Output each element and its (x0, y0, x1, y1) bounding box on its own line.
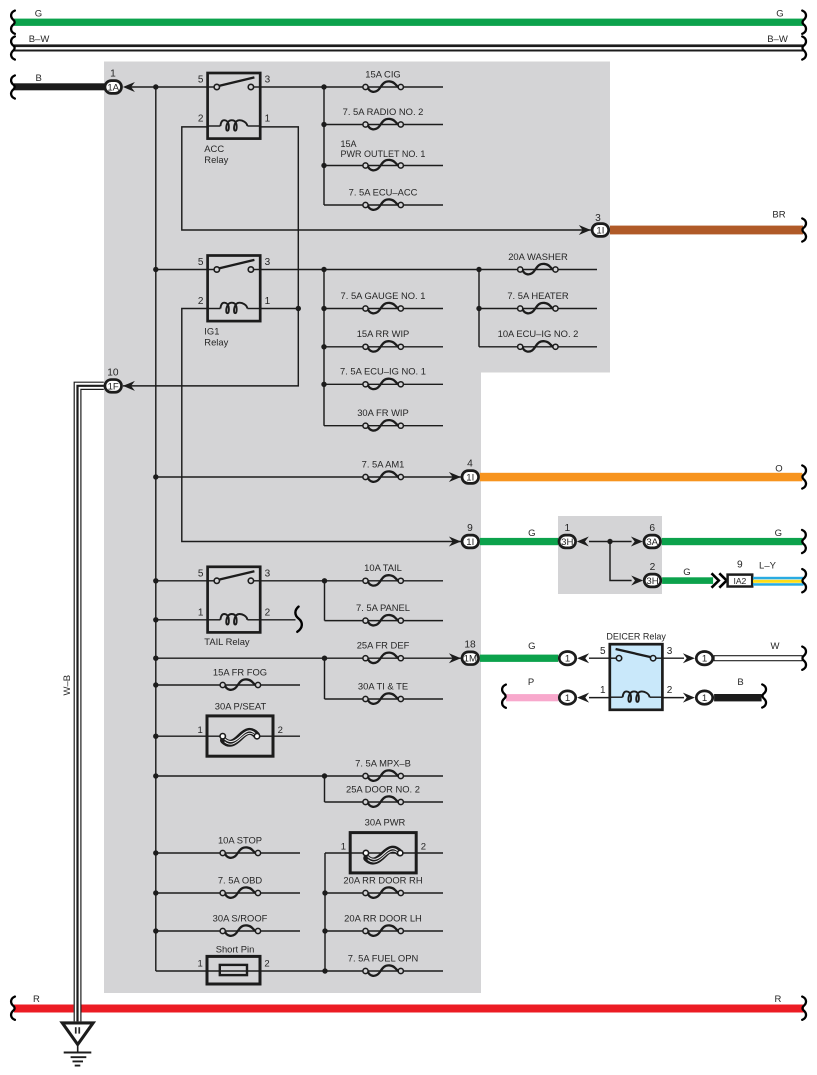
wire P (pink) (506, 694, 558, 701)
svg-text:7. 5A FUEL OPN: 7. 5A FUEL OPN (348, 952, 419, 963)
svg-text:9: 9 (467, 523, 473, 534)
arrow out of 1A (123, 82, 135, 92)
svg-text:1: 1 (702, 693, 707, 704)
svg-text:1: 1 (265, 114, 271, 125)
connector 1M pin 18 (462, 652, 479, 665)
arrow out of 1F (123, 381, 135, 391)
svg-text:7. 5A RADIO NO. 2: 7. 5A RADIO NO. 2 (343, 106, 424, 117)
svg-text:G: G (528, 641, 535, 652)
svg-text:1: 1 (198, 959, 203, 970)
chevrons into IA2 (712, 573, 727, 587)
wire G out of 3A (green) (662, 538, 803, 545)
connector 1 (W out) (696, 652, 712, 665)
wire L-Y (lightblue/yellow) (753, 577, 804, 580)
relay ACC: contact circles (214, 84, 219, 89)
fuse row 15A RR WIP (324, 346, 443, 348)
svg-text:B: B (737, 677, 743, 688)
connector 1 (deicer in) (559, 652, 575, 665)
svg-text:5: 5 (198, 257, 204, 268)
L-Y cut (right) (802, 569, 806, 592)
junction: main bus at 1A row (153, 84, 158, 89)
wire: ACC coil pin 2 loop (182, 127, 591, 230)
svg-text:6: 6 (649, 523, 655, 534)
junction: main bus TAIL row (153, 578, 158, 583)
svg-text:30A P/SEAT: 30A P/SEAT (215, 700, 267, 711)
svg-text:10A STOP: 10A STOP (218, 834, 262, 845)
relay ACC: body box (208, 73, 261, 139)
fuse row 20A RR DOOR RH (325, 892, 443, 894)
svg-text:20A RR DOOR LH: 20A RR DOOR LH (344, 912, 422, 923)
wire: TAIL coil pin 2 stub (260, 619, 295, 621)
svg-text:30A TI & TE: 30A TI & TE (358, 680, 408, 691)
vertical: ACC fuse column (323, 87, 325, 205)
svg-text:1: 1 (110, 68, 116, 79)
wire O (orange) (480, 473, 803, 482)
fuse row 20A RR DOOR LH (325, 930, 443, 932)
connector 1 (P in) (559, 691, 575, 704)
svg-text:BR: BR (772, 209, 785, 220)
svg-text:R: R (33, 994, 40, 1005)
junction: WASHER col top (476, 267, 481, 272)
svg-text:2: 2 (667, 685, 673, 696)
svg-text:3: 3 (667, 646, 673, 657)
W cut (right) (802, 647, 806, 670)
svg-text:2: 2 (198, 114, 204, 125)
svg-text:7. 5A MPX–B: 7. 5A MPX–B (355, 757, 411, 768)
arrow into 1I(4) (449, 472, 461, 482)
svg-text:5: 5 (198, 75, 204, 86)
wire: IG1 pin 3 to WASHER column (260, 269, 597, 271)
fuse row 10A ECU-IG NO.2 (479, 346, 597, 348)
svg-text:7. 5A ECU–ACC: 7. 5A ECU–ACC (349, 186, 418, 197)
svg-text:7. 5A ECU–IG NO. 1: 7. 5A ECU–IG NO. 1 (340, 366, 426, 377)
connector 1 (B out) (696, 691, 712, 704)
svg-text:W: W (771, 641, 780, 652)
svg-text:Short Pin: Short Pin (216, 943, 255, 954)
connector 3H pin 2 (644, 574, 661, 587)
arrow out of P connector (577, 693, 589, 703)
G bus cut (right) (802, 11, 806, 34)
R cut (left) (11, 997, 15, 1020)
fuse row 10A STOP (156, 852, 300, 854)
relay TAIL: switch blade (219, 571, 255, 580)
wire from DEICER pin 2 (662, 697, 684, 699)
relay IG1: switch contact wires (208, 269, 215, 271)
svg-text:1: 1 (341, 842, 346, 853)
junction: main bus at IG1 row (153, 267, 158, 272)
arrow into W connector (683, 653, 695, 663)
svg-text:B–W: B–W (29, 34, 50, 45)
wire BR (brown) (610, 226, 803, 235)
junction: CIG branch (321, 84, 326, 89)
relay DEICER: switch contact wires (610, 657, 617, 659)
fuse row 25A FR DEF (156, 657, 461, 659)
svg-text:1: 1 (565, 654, 570, 665)
vertical: DEF column (324, 658, 326, 699)
svg-text:IA2: IA2 (733, 576, 746, 586)
svg-text:5: 5 (198, 569, 204, 580)
wire W-B (white w/ black stripe) (74, 382, 82, 1021)
ground bars (64, 1053, 92, 1066)
connector 1I pin 3 (592, 224, 609, 237)
wire: ACC relay pin 3 to fuse row (260, 86, 443, 88)
svg-text:L–Y: L–Y (759, 561, 777, 572)
fuse row 30A S/ROOF (156, 930, 300, 932)
R cut (right) (802, 997, 806, 1020)
svg-text:TAIL Relay: TAIL Relay (204, 636, 250, 647)
fuse row 7.5A AM1 (156, 476, 461, 478)
fusible link 30A PWR (325, 852, 443, 854)
fuse row 15A FR FOG (156, 684, 300, 686)
relay ACC: coil (208, 125, 221, 127)
svg-text:3: 3 (265, 257, 271, 268)
connector 1I pin 4 (462, 471, 479, 484)
B cut (left) (11, 75, 15, 98)
svg-text:5: 5 (600, 646, 606, 657)
wire W (white) (714, 656, 802, 661)
svg-text:15A: 15A (341, 139, 357, 149)
svg-text:1I: 1I (466, 537, 474, 548)
fuse row 25A DOOR NO.2 (325, 801, 444, 803)
junction: main bus TAIL coil (153, 617, 158, 622)
svg-text:P: P (528, 677, 534, 688)
wire: ACC coil pin 1 down to 1F row (123, 127, 298, 386)
wire B-W bus (black/white) (14, 44, 804, 47)
relay TAIL: coil (208, 619, 221, 621)
wire G out of 3H(2) (green) (662, 577, 713, 584)
fuse row 7.5A GAUGE NO.1 (324, 308, 443, 310)
svg-text:7. 5A PANEL: 7. 5A PANEL (356, 602, 410, 613)
svg-text:1: 1 (265, 296, 271, 307)
svg-text:20A WASHER: 20A WASHER (508, 251, 568, 262)
arrow out of 3H(1) (577, 537, 589, 547)
BR cut (right) (802, 218, 806, 241)
svg-text:1: 1 (600, 685, 606, 696)
svg-text:DEICER Relay: DEICER Relay (606, 632, 666, 642)
svg-text:R: R (774, 994, 781, 1005)
wire: IG1 coil pin 1 to pin-1 bus (260, 308, 298, 310)
connector IA2 (728, 575, 753, 587)
svg-text:1I: 1I (596, 225, 604, 236)
svg-text:3H: 3H (646, 576, 658, 587)
shaded area around 3H/3A connectors (558, 516, 662, 594)
relay TAIL: switch contact wires (208, 580, 215, 582)
cut squiggle after TAIL pin 2 (295, 607, 301, 632)
svg-text:1A: 1A (107, 82, 119, 93)
wire B (black, deicer out) (714, 694, 762, 701)
junction: TAIL col top (322, 578, 327, 583)
wire G 1M to DEICER (green) (480, 655, 558, 662)
relay IG1: body box (208, 256, 261, 322)
wire: 1A to ACC relay pin 5 (130, 86, 208, 88)
arrow into 3A (631, 537, 643, 547)
relay IG1: switch blade (219, 260, 255, 269)
svg-text:B–W: B–W (767, 34, 788, 45)
G cut (right, 3A) (802, 530, 806, 553)
svg-text:7. 5A OBD: 7. 5A OBD (218, 874, 263, 885)
svg-text:15A CIG: 15A CIG (365, 68, 400, 79)
fuse row 7.5A ECU-IG NO.1 (324, 383, 443, 385)
P cut (left) (502, 685, 506, 708)
arrow into 1I(9) (449, 537, 461, 547)
arrow into 1I(3) (579, 225, 591, 235)
svg-text:15A RR WIP: 15A RR WIP (357, 328, 410, 339)
svg-text:1: 1 (198, 608, 204, 619)
relay DEICER: switch blade (616, 649, 652, 657)
connector 1I pin 9 (462, 535, 479, 548)
relay TAIL: body box (208, 567, 261, 633)
junction: IG1 pin1 on bus (296, 306, 301, 311)
junction: IG1 col top (321, 267, 326, 272)
svg-text:1M: 1M (464, 654, 477, 665)
svg-text:ACC: ACC (204, 143, 224, 154)
wire to DEICER pin 5 (589, 657, 610, 659)
svg-text:Relay: Relay (204, 154, 228, 165)
relay TAIL: contact circles (214, 578, 219, 583)
svg-text:18: 18 (464, 640, 476, 651)
arrow into B connector (683, 693, 695, 703)
svg-text:G: G (776, 8, 783, 19)
wire: Short Pin to FUEL OPN fuse (260, 970, 443, 972)
fusible link 30A P/SEAT (156, 735, 223, 737)
relay DEICER: body box (610, 644, 663, 710)
B-W cut (right) (802, 36, 806, 59)
svg-text:2: 2 (278, 725, 283, 736)
vertical: MPX column (324, 776, 326, 802)
svg-text:IG1: IG1 (204, 326, 219, 337)
svg-text:7. 5A AM1: 7. 5A AM1 (362, 458, 405, 469)
svg-text:2: 2 (198, 296, 204, 307)
svg-text:2: 2 (421, 842, 426, 853)
wire G bus (top, green) (14, 19, 804, 26)
fuse row 30A FR WIP (324, 425, 443, 427)
svg-text:3A: 3A (646, 537, 658, 548)
svg-text:10: 10 (107, 367, 119, 378)
O cut (right) (802, 465, 806, 488)
fuse row 7.5A HEATER (479, 308, 597, 310)
wire: TAIL pin 3 to fuse row (260, 580, 443, 582)
wire B (battery feed, black) (14, 83, 105, 90)
connector 1F (105, 380, 122, 393)
ground triangle II (62, 1023, 93, 1045)
svg-text:30A S/ROOF: 30A S/ROOF (213, 912, 268, 923)
connector 1A (105, 81, 122, 94)
vertical: WASHER fuse column (478, 270, 480, 347)
wire: 3H net down to 3H(2) (610, 542, 632, 581)
svg-text:1F: 1F (108, 381, 119, 392)
relay IG1: contact circles (214, 267, 219, 272)
svg-text:25A FR DEF: 25A FR DEF (357, 640, 410, 651)
fuse row 7.5A OBD (156, 892, 300, 894)
svg-text:30A PWR: 30A PWR (365, 817, 406, 828)
arrow into 1M (449, 653, 461, 663)
main vertical feed bus (155, 87, 157, 971)
svg-text:Relay: Relay (204, 337, 228, 348)
svg-text:B: B (36, 73, 42, 84)
connector 3A pin 6 (644, 535, 661, 548)
wire from DEICER pin 3 (662, 657, 684, 659)
wire: 3H1 to 3A (589, 541, 632, 543)
svg-text:1: 1 (702, 654, 707, 665)
svg-text:G: G (528, 528, 535, 539)
svg-text:PWR OUTLET NO. 1: PWR OUTLET NO. 1 (341, 149, 426, 159)
fuse row 7.5A PANEL (325, 620, 444, 622)
wire: main bus to IG1 pin 5 (156, 269, 208, 271)
junction: 3H net (607, 539, 612, 544)
svg-text:4: 4 (467, 458, 473, 469)
svg-text:G: G (683, 567, 690, 578)
svg-text:3: 3 (265, 569, 271, 580)
junction block shaded area (104, 62, 610, 994)
svg-text:G: G (775, 528, 782, 539)
relay IG1: coil (208, 308, 221, 310)
svg-text:1: 1 (564, 523, 570, 534)
svg-text:3: 3 (265, 75, 271, 86)
G bus cut (left) (11, 11, 15, 34)
relay DEICER: coil (610, 696, 623, 698)
arrow out of deicer-in connector (577, 653, 589, 663)
svg-text:1I: 1I (466, 472, 474, 483)
svg-text:W–B: W–B (62, 675, 73, 696)
relay DEICER: contact circles (616, 656, 621, 661)
B-W cut (left) (11, 36, 15, 59)
svg-text:G: G (35, 8, 42, 19)
fuse row 15A PWR OUTLET NO.1 (324, 165, 443, 167)
svg-text:7. 5A HEATER: 7. 5A HEATER (507, 290, 569, 301)
wire: IG1 coil pin 2 loop down (182, 309, 461, 542)
relay ACC: switch blade (219, 77, 255, 86)
B cut (right) (762, 684, 766, 707)
arrow into 3H(2) (631, 576, 643, 586)
wire G to 3H (green) (480, 538, 558, 545)
svg-text:15A FR FOG: 15A FR FOG (213, 666, 267, 677)
wire R bus (bottom, red) (14, 1005, 804, 1013)
svg-text:2: 2 (650, 562, 656, 573)
svg-text:10A TAIL: 10A TAIL (364, 562, 402, 573)
ground stem (77, 1046, 79, 1052)
svg-text:1: 1 (198, 725, 203, 736)
wire: main bus to TAIL pin 5 (156, 580, 208, 582)
svg-text:7. 5A GAUGE NO. 1: 7. 5A GAUGE NO. 1 (341, 290, 426, 301)
svg-text:O: O (775, 463, 782, 474)
vertical: IG1 fuse column (323, 270, 325, 426)
connector 3H pin 1 (559, 535, 576, 548)
fuse row 7.5A MPX-B (156, 775, 443, 777)
vertical: TAIL fuse column (324, 581, 326, 621)
svg-text:2: 2 (265, 608, 271, 619)
fuse row 7.5A RADIO NO.2 (324, 124, 443, 126)
fuse row 30A TI & TE (325, 698, 444, 700)
wire to DEICER pin 1 (589, 697, 610, 699)
wire: main bus to TAIL coil pin 1 (156, 619, 208, 621)
svg-text:30A FR WIP: 30A FR WIP (357, 407, 409, 418)
svg-text:9: 9 (737, 560, 743, 571)
svg-text:25A DOOR NO. 2: 25A DOOR NO. 2 (346, 783, 420, 794)
vertical: PWR column (324, 853, 326, 971)
svg-text:3H: 3H (561, 537, 573, 548)
relay ACC: switch contact wires (208, 86, 215, 88)
wire: main bus corner to Short Pin (156, 970, 207, 972)
svg-text:20A RR DOOR RH: 20A RR DOOR RH (343, 874, 422, 885)
fuse row 7.5A ECU-ACC (324, 204, 443, 206)
svg-text:1: 1 (565, 693, 570, 704)
svg-text:10A ECU–IG NO. 2: 10A ECU–IG NO. 2 (498, 328, 579, 339)
svg-text:2: 2 (264, 959, 269, 970)
